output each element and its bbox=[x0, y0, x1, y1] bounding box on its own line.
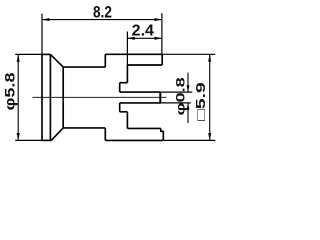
dimension line 2.4 bbox=[127, 37, 161, 40]
extension lines of dia 0.8 bbox=[161, 91, 193, 93]
pin end cap bbox=[159, 92, 161, 103]
flange+leg bottom edge bbox=[105, 139, 163, 141]
svg-text:8.2: 8.2 bbox=[93, 3, 112, 22]
top leg inner edge bbox=[127, 64, 162, 66]
svg-text:□5.9: □5.9 bbox=[194, 82, 208, 121]
bottom leg inner edge bbox=[127, 127, 160, 129]
flange+leg top edge bbox=[105, 53, 162, 55]
dimension line dia 0.8 (arrows outside) bbox=[187, 73, 190, 123]
flange left face lower bbox=[104, 128, 106, 140]
flange left face upper bbox=[104, 54, 106, 67]
body outline: cylinder top edge bbox=[63, 66, 105, 68]
pin top edge bbox=[120, 91, 161, 93]
centerline bbox=[33, 96, 167, 98]
svg-text:2.4: 2.4 bbox=[132, 22, 155, 39]
flange face mid upper bbox=[126, 65, 128, 83]
dimension line dia 5.8 bbox=[17, 54, 20, 140]
body outline: left face bbox=[41, 54, 43, 140]
step bottom edge bbox=[120, 111, 128, 113]
dimension line 8.2 bbox=[42, 18, 162, 21]
boss face lower bbox=[119, 103, 121, 112]
extension lines of square 5.9 bbox=[163, 53, 216, 55]
extension line left of 8.2 bbox=[41, 14, 43, 55]
bottom leg end step bbox=[161, 128, 164, 140]
svg-text:φ0.8: φ0.8 bbox=[173, 77, 187, 116]
boss face upper bbox=[119, 83, 121, 92]
body outline: top edge left bbox=[41, 53, 50, 55]
extension lines of dia 5.8 bbox=[15, 53, 42, 55]
top leg end face bbox=[161, 54, 163, 65]
extension line left of 2.4 bbox=[126, 32, 128, 66]
dimension line square 5.9 bbox=[208, 54, 211, 140]
pin bottom edge bbox=[120, 102, 161, 104]
extension line right of 8.2 / 2.4 bbox=[161, 13, 163, 54]
body outline: mating face bbox=[49, 54, 51, 140]
body outline: cylinder bottom edge bbox=[63, 127, 105, 129]
body outline: taper top bbox=[50, 54, 63, 67]
body outline: bottom edge left bbox=[41, 139, 51, 141]
body outline: nut face bbox=[62, 67, 64, 128]
svg-text:φ5.8: φ5.8 bbox=[3, 72, 18, 111]
step top edge bbox=[120, 82, 128, 84]
body outline: taper bottom bbox=[51, 128, 63, 140]
flange face mid lower bbox=[126, 112, 128, 129]
